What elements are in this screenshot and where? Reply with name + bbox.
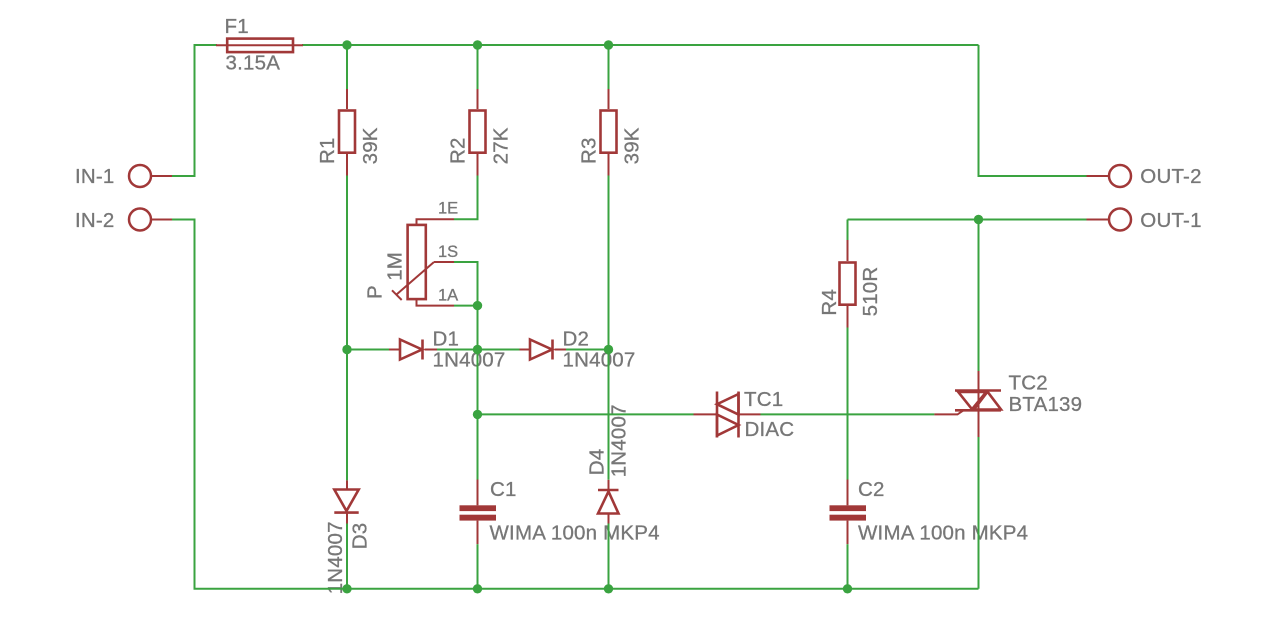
wire pin 1A to node [454,305,478,307]
svg-text:R1: R1 [316,137,339,164]
diode D2 [520,349,531,351]
wire OUT-1 line [848,219,1087,221]
wire IN-2 to bottom rail [172,220,979,589]
diode D3 [346,480,348,489]
wire node 1A down to node D1 [477,306,479,350]
svg-text:C2: C2 [858,478,885,501]
svg-text:TC2: TC2 [1009,372,1048,395]
potentiometer P pin 1S [434,261,454,263]
svg-text:D3: D3 [349,523,372,550]
svg-text:WIMA 100n MKP4: WIMA 100n MKP4 [858,522,1028,545]
svg-text:R3: R3 [578,137,601,164]
svg-text:1M: 1M [384,252,407,281]
wire C1 to bottom rail [477,544,479,589]
wire pin 1S to node 1A [454,262,478,306]
potentiometer P pin 1A [417,300,455,306]
potentiometer P body [408,225,426,299]
svg-text:IN-2: IN-2 [75,209,115,232]
svg-text:R2: R2 [447,137,470,164]
capacitor C2 [847,480,849,506]
svg-text:R4: R4 [818,289,841,316]
terminal OUT-2 [1087,175,1110,177]
wire R4 to C2 [847,328,849,480]
wire R3 to D4 [608,176,610,480]
wire R1 to node D1 [346,176,348,350]
svg-text:510R: 510R [859,267,882,317]
potentiometer P pin 1E [417,219,455,224]
wire top rail to R1 [346,45,348,89]
svg-text:C1: C1 [490,478,517,501]
junction D2 / R3 row [604,345,613,354]
wire TC1 to TC2 gate [761,413,935,415]
triac TC2 [934,410,963,414]
resistor R3 [608,89,610,109]
wire node R1 to D1 [347,349,389,351]
wire top rail to R3 [608,45,610,89]
wire top rail to OUT-2 [979,45,1087,176]
svg-text:IN-1: IN-1 [75,165,115,188]
svg-text:1N4007: 1N4007 [324,521,347,594]
svg-text:39K: 39K [620,127,643,164]
svg-text:TC1: TC1 [744,388,783,411]
svg-text:1N4007: 1N4007 [433,349,506,372]
junction R1 / D1 row [342,345,351,354]
wire top rail [302,44,979,46]
svg-text:BTA139: BTA139 [1009,393,1083,416]
junction top rail / R2 [473,40,482,49]
svg-text:P: P [363,285,386,299]
svg-text:OUT-1: OUT-1 [1140,209,1201,232]
junction top rail / R1 [342,40,351,49]
junction pot 1A node [473,301,482,310]
junction bottom rail / D4 [604,584,613,593]
wire OUT-1 line to R4 [847,220,849,241]
svg-text:DIAC: DIAC [745,418,795,441]
svg-text:1N4007: 1N4007 [563,349,636,372]
svg-text:D1: D1 [433,327,460,350]
wire C1 top pin green part [477,414,479,479]
fuse F1 [216,44,303,46]
junction OUT-1 / TC2 [974,215,983,224]
diac TC1 [694,413,718,415]
svg-text:D2: D2 [563,327,590,350]
svg-text:F1: F1 [225,15,249,38]
wire C2 to bottom rail [847,544,849,589]
resistor R4 [847,240,849,261]
junction bottom rail / C2 [843,584,852,593]
wire D4 to bottom rail [608,524,610,589]
wire TC2 to bottom rail [978,437,980,589]
svg-text:1S: 1S [438,243,458,261]
wire node D1 down to D3 [346,350,348,481]
junction gate row / C1 [473,410,482,419]
svg-text:1A: 1A [438,287,458,305]
resistor R2 [477,89,479,109]
svg-text:27K: 27K [489,127,512,164]
resistor R1 [346,89,348,109]
svg-text:WIMA 100n MKP4: WIMA 100n MKP4 [490,522,660,545]
wire node D1 down to gate node [477,350,479,415]
svg-text:D4: D4 [586,449,609,476]
potentiometer P wiper arrow [397,262,435,295]
capacitor C1 [477,414,479,505]
junction top rail / R3 [604,40,613,49]
wire D1 to D2 [437,349,520,351]
diode D4 [608,480,610,490]
wire D2 to node R3 [566,349,609,351]
junction bottom rail / C1 [473,584,482,593]
junction D1 / D2 row [473,345,482,354]
terminal IN-2 [151,219,172,221]
terminal IN-1 [151,175,172,177]
wire D3 to bottom rail [346,524,348,589]
wire IN-1 to top rail [172,45,217,176]
wire OUT-1 node down to TC2 [978,220,980,372]
wire R2 to pot pin 1E [454,176,478,220]
terminal OUT-1 [1087,219,1110,221]
junction bottom rail / D3 [342,584,351,593]
diode D1 [389,349,400,351]
svg-text:OUT-2: OUT-2 [1140,165,1201,188]
wire gate node to TC1 [478,413,694,415]
svg-text:3.15A: 3.15A [226,51,281,74]
svg-text:39K: 39K [359,127,382,164]
wire top rail to R2 [477,45,479,89]
svg-text:1E: 1E [438,200,458,218]
